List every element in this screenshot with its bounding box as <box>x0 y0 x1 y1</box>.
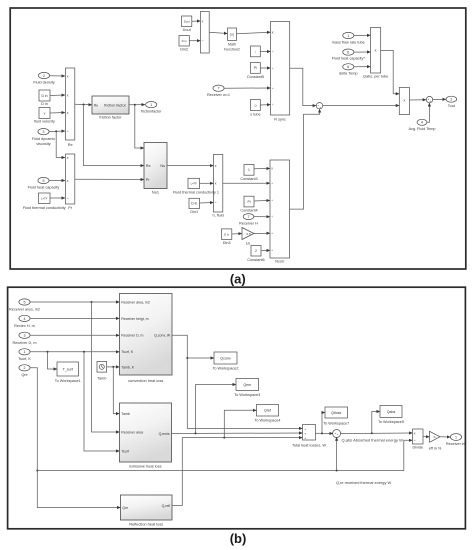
svg-text:Receiver area, m2: Receiver area, m2 <box>121 300 150 304</box>
junction Qconv WS branch <box>186 357 188 359</box>
svg-text:To Workspace3: To Workspace3 <box>234 393 260 397</box>
svg-text:5: 5 <box>24 300 26 304</box>
svg-text:÷: ÷ <box>414 439 416 443</box>
wire multiply to sum2 <box>410 99 427 101</box>
svg-text:(b): (b) <box>230 531 247 546</box>
svg-text:Q,re received thermal energy W: Q,re received thermal energy W <box>336 480 391 485</box>
svg-text:R sync: R sync <box>274 118 286 122</box>
wire Qabs mux to multiply <box>381 50 399 93</box>
sum circle 2 <box>426 96 432 102</box>
svg-text:viscosity: viscosity <box>36 142 50 146</box>
svg-text:mass flow rate tube: mass flow rate tube <box>332 40 365 44</box>
svg-text:x: x <box>202 19 204 23</box>
svg-text:Receiver D, m: Receiver D, m <box>121 334 143 338</box>
svg-text:4: 4 <box>24 317 26 321</box>
wire Nu1 to h fluid <box>167 165 213 167</box>
svg-text:fluid velocity: fluid velocity <box>34 120 55 124</box>
output oval Receiver ef <box>446 434 466 446</box>
input oval Fluid heat capacity star <box>332 49 366 61</box>
wire fluid velocity to Re <box>50 112 65 115</box>
clock block Tamb <box>97 362 107 381</box>
svg-text:Qconv: Qconv <box>220 356 231 360</box>
block fluid velocity <box>34 108 55 124</box>
svg-text:Constant5: Constant5 <box>247 75 264 79</box>
block Constant5 Pi <box>247 63 264 80</box>
wire Qconv branch to WS2 <box>187 357 214 359</box>
svg-text:Receiver D, m: Receiver D, m <box>12 341 36 345</box>
junction area branch <box>91 301 93 303</box>
svg-text:1: 1 <box>150 103 152 107</box>
svg-text:D in: D in <box>224 232 229 236</box>
block T_surf To Workspace1 <box>55 362 81 383</box>
block Qtloss To Workspace7 <box>323 407 349 426</box>
svg-text:s tube: s tube <box>250 113 260 117</box>
svg-text:Total heat losses, W: Total heat losses, W <box>292 444 326 448</box>
svg-text:eff in %: eff in % <box>429 447 442 451</box>
svg-text:Receiver w=1: Receiver w=1 <box>207 93 230 97</box>
svg-text:friction factor: friction factor <box>104 104 126 108</box>
input oval Receiver w=1 <box>207 85 230 97</box>
wire Tsurf branch to Emissive <box>84 352 119 451</box>
wire Tamb branch to Emissive <box>113 367 119 414</box>
wire Avg temp to sum2 <box>427 103 429 122</box>
svg-text:1: 1 <box>24 350 26 354</box>
svg-text:÷: ÷ <box>272 50 274 54</box>
svg-text:x: x <box>271 167 273 171</box>
svg-text:Q,abs Absorbed thermal energy: Q,abs Absorbed thermal energy W <box>342 438 404 443</box>
junction viscosity branch <box>55 130 57 132</box>
svg-text:Fluid thermal conductivity: Fluid thermal conductivity <box>23 206 66 210</box>
wire Qre to sum circle <box>336 437 338 470</box>
svg-text:x: x <box>414 431 416 435</box>
svg-text:L=TF: L=TF <box>191 182 198 186</box>
panel (a) frame <box>10 8 466 269</box>
wire Qre feedback to divide <box>37 440 412 470</box>
svg-text:D in: D in <box>41 102 48 106</box>
svg-text:Din3: Din3 <box>223 241 231 245</box>
svg-text:Pi: Pi <box>247 200 250 204</box>
subsystem Reflection heat loss <box>121 495 173 527</box>
svg-text:Fluid thermal conductivity 1: Fluid thermal conductivity 1 <box>173 191 219 195</box>
svg-text:2: 2 <box>24 366 26 370</box>
wire Qem branch to WS3 <box>196 385 236 434</box>
svg-text:Nu: Nu <box>160 164 165 168</box>
svg-text:D in: D in <box>182 39 187 43</box>
svg-text:Constant3: Constant3 <box>240 177 257 181</box>
svg-text:x: x <box>67 93 69 97</box>
wire Receiver H to conv <box>30 317 119 319</box>
product block Qabs per tube <box>363 28 388 79</box>
gain triangle 1/e <box>242 228 254 246</box>
wire Qemis to total <box>172 432 303 435</box>
svg-text:3: 3 <box>43 130 45 134</box>
subsystem friction factor <box>92 96 129 120</box>
product block h fluid <box>213 155 224 218</box>
block Constant3 <box>240 165 257 181</box>
svg-text:÷: ÷ <box>272 86 274 90</box>
block Fluid thermal conductivity lookup <box>23 193 66 210</box>
svg-text:5: 5 <box>43 179 45 183</box>
svg-text:3: 3 <box>24 334 26 338</box>
svg-text:6: 6 <box>347 65 349 69</box>
svg-text:÷: ÷ <box>271 199 273 203</box>
wire Qconv to total <box>172 335 302 428</box>
svg-text:Q,conv, W: Q,conv, W <box>154 334 171 338</box>
wire Din1 to h fluid <box>200 202 214 205</box>
svg-text:(a): (a) <box>230 271 246 286</box>
svg-text:Re: Re <box>94 103 98 107</box>
svg-text:T_surf: T_surf <box>63 367 73 371</box>
output oval frictionfactor <box>141 102 162 114</box>
svg-text:÷: ÷ <box>215 201 217 205</box>
wire conductivity1 to h fluid <box>200 182 214 184</box>
gain triangle eff in % <box>429 431 442 450</box>
svg-text:Qref: Qref <box>264 409 271 413</box>
wire math to R sync <box>237 32 271 34</box>
block Qconv To Workspace2 <box>212 352 238 371</box>
input oval mass flow rate tube <box>332 32 365 44</box>
sum circle 1 <box>316 103 322 109</box>
svg-text:Divide: Divide <box>412 446 423 450</box>
svg-text:D in: D in <box>41 94 47 98</box>
svg-text:To Workspace4: To Workspace4 <box>254 419 280 423</box>
wire viscosity branch to Pr <box>56 131 65 157</box>
svg-text:Fluid heat capacity*: Fluid heat capacity* <box>332 57 366 61</box>
svg-text:Qre: Qre <box>122 506 128 510</box>
wire Receiver D to conv <box>30 334 119 336</box>
wire Pi to R sync <box>260 67 270 69</box>
svg-text:Fluid dynamic: Fluid dynamic <box>32 137 56 141</box>
block Qem To Workspace3 <box>234 379 260 397</box>
block Constant down2 <box>251 46 261 57</box>
junction Re branch <box>83 104 85 106</box>
junction Qem WS branch <box>195 432 197 434</box>
product block R sync <box>271 22 290 122</box>
svg-text:Function2: Function2 <box>224 48 240 52</box>
svg-text:÷: ÷ <box>271 215 273 219</box>
wire h fluid to Ncorr <box>223 182 270 184</box>
subsystem convection heat loss <box>120 294 173 383</box>
svg-text:Reflection heat loss: Reflection heat loss <box>129 522 163 527</box>
wire divide to eff gain <box>423 436 429 438</box>
block Math Function2 <box>224 28 240 52</box>
wire Re out to friction factor <box>75 103 92 106</box>
wire D in to Re <box>50 94 65 97</box>
svg-text:Qabs: Qabs <box>387 410 396 414</box>
wire friction branch to Nu1 top <box>135 105 144 148</box>
svg-text:Ncorr: Ncorr <box>275 260 285 264</box>
svg-text:Qabs, per tube: Qabs, per tube <box>363 75 388 79</box>
block D in <box>39 90 50 106</box>
svg-text:0.5: 0.5 <box>247 232 252 236</box>
subsystem Emissive heat loss <box>120 403 172 469</box>
svg-text:x: x <box>67 111 69 115</box>
svg-text:+: + <box>305 427 307 431</box>
junction Qre feedback <box>36 470 38 472</box>
wire Ncorr to sum1 <box>290 109 320 209</box>
svg-text:L=TF: L=TF <box>41 197 48 201</box>
input oval Fluid dynamic viscosity <box>32 129 56 147</box>
svg-text:Emissive heat loss: Emissive heat loss <box>129 464 161 469</box>
svg-text:|u|: |u| <box>230 33 234 37</box>
svg-text:x: x <box>67 156 69 160</box>
svg-text:Reciev H, m: Reciev H, m <box>14 324 35 328</box>
svg-text:Constant4: Constant4 <box>240 209 257 213</box>
wire Receiver w to R sync <box>224 87 270 89</box>
wire Qre down <box>30 368 120 508</box>
svg-text:1: 1 <box>347 34 349 38</box>
svg-text:Receiver heigt, m: Receiver heigt, m <box>121 317 148 321</box>
svg-text:Fluid heat capacity: Fluid heat capacity <box>28 185 60 189</box>
wire Tsurf to conv <box>30 351 119 353</box>
svg-text:+: + <box>305 431 307 435</box>
wire Qref branch to WS4 <box>224 410 256 437</box>
svg-text:÷: ÷ <box>271 182 273 186</box>
svg-text:÷: ÷ <box>271 249 273 253</box>
wire Constant6 to Ncorr <box>261 249 270 252</box>
svg-text:Tout: Tout <box>448 104 456 108</box>
svg-text:Receiver ef.: Receiver ef. <box>446 442 466 446</box>
sum circle b <box>333 430 341 438</box>
svg-text:Avg. Fluid Temp: Avg. Fluid Temp <box>408 127 435 131</box>
wire Pr out to Nu1 <box>75 178 144 180</box>
svg-text:x: x <box>67 74 69 78</box>
wire Tsurf branch to T_surf <box>48 352 57 369</box>
svg-text:friction factor: friction factor <box>99 115 122 120</box>
svg-text:x: x <box>215 182 217 186</box>
wire delta Temp to Qabs mux <box>354 66 370 68</box>
junction friction branch <box>134 104 136 106</box>
svg-text:1: 1 <box>455 435 457 439</box>
svg-text:To Workspace7: To Workspace7 <box>323 422 349 426</box>
svg-text:To Workspace1: To Workspace1 <box>55 379 81 383</box>
svg-text:Tsurf: Tsurf <box>121 449 129 453</box>
output oval Tout <box>446 96 457 108</box>
input oval delta Temp <box>339 64 358 76</box>
svg-text:7: 7 <box>218 87 220 91</box>
svg-text:Dout: Dout <box>184 20 190 24</box>
wire heat capacity star to Qabs mux <box>354 51 370 53</box>
svg-text:To Workspace5: To Workspace5 <box>378 420 404 424</box>
block Qref To Workspace4 <box>254 405 280 423</box>
block Qabs To Workspace5 <box>378 406 404 425</box>
svg-text:Tamb: Tamb <box>121 412 130 416</box>
svg-text:÷: ÷ <box>202 39 204 43</box>
svg-text:4: 4 <box>421 121 423 125</box>
wire total to sum <box>316 432 333 434</box>
junction Qtloss branch <box>321 432 323 434</box>
input oval Fluid density <box>33 72 54 84</box>
svg-text:+: + <box>305 436 307 440</box>
svg-text:x: x <box>272 30 274 34</box>
wire friction factor to oval <box>129 104 145 106</box>
input oval Fluid heat capacity <box>28 177 60 189</box>
wire viscosity to Re <box>49 130 65 133</box>
svg-text:◇: ◇ <box>254 103 257 107</box>
svg-text:Tamb, K: Tamb, K <box>121 365 135 369</box>
divide block Divide2 <box>201 12 210 54</box>
svg-text:Din2: Din2 <box>180 48 188 52</box>
product block per tube multiply <box>399 88 409 115</box>
input oval Qre <box>19 365 30 377</box>
svg-text:v: v <box>44 111 46 115</box>
svg-text:÷: ÷ <box>67 129 69 133</box>
wire Din3 to gain <box>232 233 242 236</box>
wire area branch to Emissive <box>92 302 120 432</box>
svg-text:÷: ÷ <box>67 196 69 200</box>
block Fluid thermal conductivity 1 lookup <box>173 178 219 194</box>
block stube sqrt <box>250 100 260 117</box>
wire const2 to R sync <box>260 51 270 53</box>
svg-text:2: 2 <box>255 249 257 253</box>
wire eff gain to Receiver ef <box>440 436 450 438</box>
input oval Receiver D m <box>12 332 36 345</box>
junction Qabs branch <box>371 432 373 434</box>
svg-text:1/e: 1/e <box>246 242 251 246</box>
product block Re <box>66 68 75 147</box>
svg-text:2: 2 <box>450 98 452 102</box>
svg-text:D in: D in <box>191 202 197 206</box>
svg-text:x: x <box>67 179 69 183</box>
wire Qrefl to total <box>172 438 302 506</box>
svg-text:Qem: Qem <box>243 383 251 387</box>
svg-text:x: x <box>215 164 217 168</box>
wire Receiver area to conv <box>30 301 119 303</box>
input oval Receiver H m <box>14 315 35 328</box>
svg-text:Qtloss: Qtloss <box>331 411 341 415</box>
svg-text:h, fluid: h, fluid <box>213 214 224 218</box>
wire Dout to divide <box>192 20 201 22</box>
svg-text:Receiver area, m2: Receiver area, m2 <box>9 308 40 312</box>
wire Re branch to Nu1 <box>84 105 144 166</box>
input oval Avg Fluid Temp <box>408 119 435 131</box>
wire Qtloss branch to WS7 <box>322 413 325 434</box>
svg-text:Nu1: Nu1 <box>152 190 159 195</box>
subsystem Nu1 <box>144 143 167 195</box>
svg-text:K-: K- <box>434 435 437 439</box>
svg-text:Qre: Qre <box>21 373 27 377</box>
sum block Total heat losses <box>292 425 326 448</box>
block Din2 <box>179 36 189 52</box>
wire Fluid density to Re <box>50 75 65 77</box>
svg-text:Pi: Pi <box>254 66 257 70</box>
svg-text:Receiver H: Receiver H <box>239 221 258 225</box>
wire sum2 to Tout <box>433 98 446 100</box>
wire Tamb to conv <box>107 366 120 368</box>
svg-text:x: x <box>403 98 405 102</box>
junction Qref WS branch <box>223 437 225 439</box>
block Din3 <box>222 229 232 245</box>
wire sum1 to multiply <box>323 105 399 107</box>
block Constant4 Pi <box>240 196 257 212</box>
svg-text:Constant6: Constant6 <box>247 258 264 262</box>
junction Qre to sum <box>336 470 338 472</box>
junction Tsurf emissive branch <box>83 351 85 353</box>
wire mass flow to Qabs mux <box>354 34 370 36</box>
svg-text:Receiver area: Receiver area <box>121 430 143 434</box>
input oval Receiver area m2 <box>9 299 40 312</box>
svg-text:Dout: Dout <box>183 28 192 32</box>
svg-text:7: 7 <box>248 215 250 219</box>
block Dout <box>182 16 192 32</box>
svg-text:↓: ↓ <box>255 50 257 54</box>
svg-text:frictionfactor: frictionfactor <box>141 109 162 113</box>
wire R sync to sum1 <box>290 68 316 105</box>
panel (b) frame <box>8 287 466 529</box>
svg-text:Q,refl: Q,refl <box>162 504 171 508</box>
svg-text:convection heat loss: convection heat loss <box>128 378 163 383</box>
block Din1 <box>189 198 200 214</box>
svg-text:Re: Re <box>68 143 73 147</box>
product block Ncorr <box>270 160 290 264</box>
wire Din2 to divide <box>189 40 200 42</box>
svg-text:÷: ÷ <box>271 232 273 236</box>
wire gain to Ncorr <box>254 232 270 234</box>
wire Constant3 to Ncorr <box>254 167 270 169</box>
svg-text:x: x <box>375 49 377 53</box>
svg-text:÷: ÷ <box>272 103 274 107</box>
product block Pr <box>66 154 75 210</box>
wire divide to math <box>209 32 227 33</box>
svg-text:2: 2 <box>43 74 45 78</box>
svg-text:To Workspace2: To Workspace2 <box>212 367 238 371</box>
wire sum to divide <box>340 432 412 435</box>
svg-text:Q,emis: Q,emis <box>159 432 170 436</box>
svg-text:Din1: Din1 <box>190 210 198 214</box>
junction Tsurf Tworkspace branch <box>47 351 49 353</box>
wire stube to R sync <box>260 104 270 106</box>
block Constant6 <box>247 246 264 262</box>
svg-text:÷: ÷ <box>272 66 274 70</box>
svg-text:Tsurf, K: Tsurf, K <box>18 357 31 361</box>
svg-text:Re: Re <box>146 164 151 168</box>
svg-text:Tsurf, K: Tsurf, K <box>121 350 134 354</box>
wire Qabs branch to WS5 <box>372 412 380 434</box>
junction Tamb branch <box>112 366 114 368</box>
wire heat capacity to Pr <box>49 180 65 182</box>
wire conductivity to Pr <box>50 197 65 199</box>
divide block Divide <box>412 429 423 450</box>
input oval Receiver H <box>239 214 258 226</box>
wire Receiver H to Ncorr <box>254 216 270 218</box>
svg-text:1: 1 <box>248 168 250 172</box>
wire Constant4 to Ncorr <box>254 199 270 202</box>
svg-text:6: 6 <box>347 51 349 55</box>
svg-text:Math: Math <box>228 43 236 47</box>
svg-text:delta Temp: delta Temp <box>339 71 358 75</box>
input oval Tsurf K <box>18 349 31 361</box>
svg-text:Fluid density: Fluid density <box>33 81 54 85</box>
svg-text:Tamb: Tamb <box>97 377 106 381</box>
